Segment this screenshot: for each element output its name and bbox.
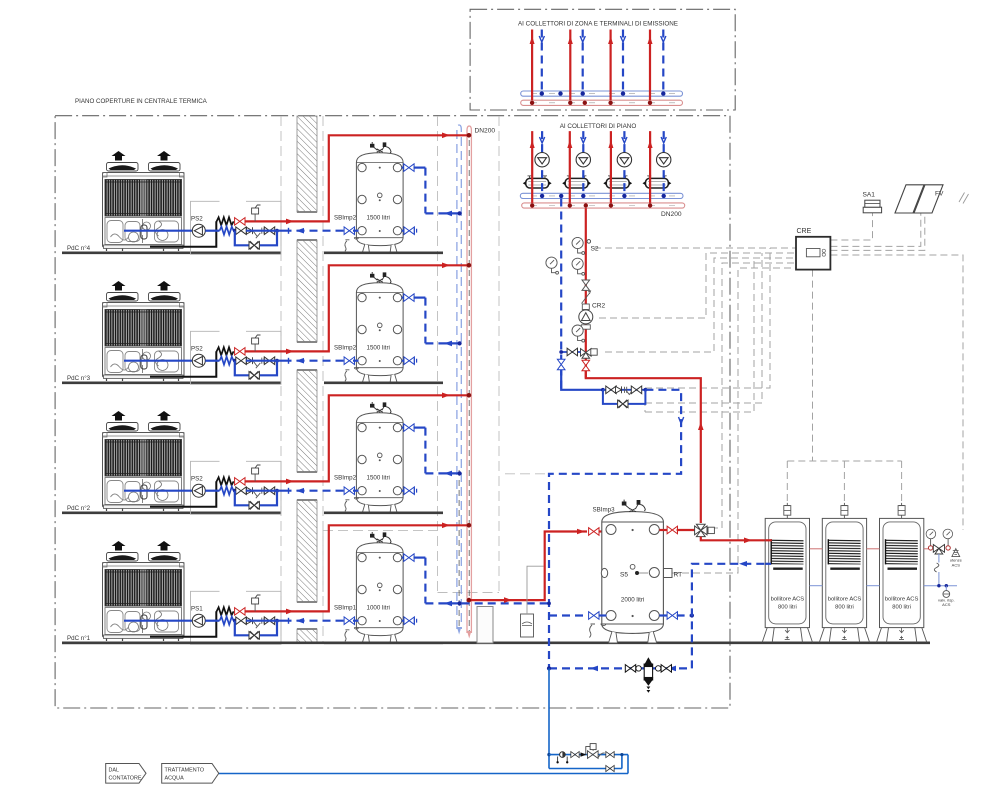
piano group 2 heat exchanger block [562, 176, 591, 188]
zona main return dot [558, 91, 562, 95]
zone collectors boundary box [470, 9, 735, 110]
masonry wall hatched blocks [297, 116, 317, 643]
zona blue collector pill [521, 91, 683, 96]
piano red collector pill [522, 203, 685, 208]
SBImp3 bottom left inlet [549, 612, 607, 620]
zona main supply dot [583, 101, 587, 105]
piano group 2 blue riser with pump [576, 131, 590, 198]
boiler ACS 1 [762, 503, 812, 643]
heat pump PdC n°4 [103, 151, 185, 251]
wire mixing valve actuator to CRE [605, 258, 796, 352]
svg-text:PdC n°3: PdC n°3 [67, 375, 91, 382]
piano group 4 red riser [648, 131, 653, 208]
svg-text:PS1: PS1 [191, 606, 203, 613]
wire ACS mixing valve to CRE [830, 255, 963, 530]
return extension from riser to SBImp3 loop [462, 602, 551, 606]
photovoltaic panels FV [895, 185, 969, 213]
DN200 risers in shaft : red pair [467, 126, 471, 633]
svg-text:ACS: ACS [952, 562, 961, 567]
svg-text:SBImp2: SBImp2 [334, 345, 357, 352]
TRATTAMENTO ACQUA tag [162, 764, 219, 784]
svg-text:PIANO COPERTURE IN CENTRALE TE: PIANO COPERTURE IN CENTRALE TERMICA [75, 98, 208, 105]
svg-text:SBImp1: SBImp1 [334, 605, 357, 612]
svg-text:S2: S2 [591, 246, 599, 253]
svg-text:DN200: DN200 [661, 211, 682, 218]
heat pump PdC n°2 [103, 411, 185, 511]
buffer tank SBImp1 1000 litri (row 1) [345, 532, 403, 643]
svg-text:800 litri: 800 litri [892, 605, 911, 611]
cold return entry into boiler 1 coil [765, 563, 771, 565]
svg-text:1500 litri: 1500 litri [367, 475, 390, 482]
solar sensor SA1 [863, 192, 882, 213]
ACS thermostatic mixing valve [928, 545, 950, 555]
piping kit row 1 with pump PS1 [62, 523, 471, 645]
wall shaft dashed guides [281, 116, 499, 643]
svg-text:1500 litri: 1500 litri [367, 215, 390, 222]
wire three-way valve to CRE [711, 263, 796, 528]
thermometer on return [546, 257, 559, 274]
wire CR2 pump to CRE [599, 253, 796, 318]
dirt separator filter [625, 657, 671, 693]
expansion vessel (open) [477, 607, 493, 644]
buffer tank SBImp2 1500 litri (row 4) [345, 142, 403, 253]
main return blue vertical [559, 194, 563, 390]
piano group 1 red riser [530, 131, 535, 208]
SBImp3 bottom right connection [659, 612, 694, 620]
zona red collector pill [521, 100, 683, 105]
flange under pump [581, 325, 590, 329]
sensor S2 [587, 240, 599, 253]
svg-text:1000 litri: 1000 litri [367, 605, 390, 612]
boiler ACS 3 [877, 503, 927, 643]
utenze ACS outlet [950, 549, 963, 568]
piping kit row 2 with pump PS2 [62, 393, 471, 515]
zona riser pair 2 red [568, 30, 573, 106]
piano group 1 heat exchanger block [523, 176, 552, 188]
wire comb to floor pumps [645, 248, 770, 412]
DHW return riser to boilers [692, 561, 771, 668]
controller CRE [796, 228, 830, 270]
zona riser pair 1 red [530, 30, 535, 106]
svg-text:PdC n°1: PdC n°1 [67, 635, 91, 642]
svg-text:800 litri: 800 litri [835, 605, 854, 611]
wire FV panel 2 to CRE [830, 213, 924, 250]
svg-text:TRATTAMENTO: TRATTAMENTO [165, 767, 205, 773]
return bypass line with valves [549, 370, 684, 668]
DN200 risers in shaft : blue pair [457, 125, 461, 629]
valve on SBImp3 inlet [589, 528, 599, 536]
thermostat RT [664, 569, 683, 579]
svg-text:SA1: SA1 [863, 192, 876, 199]
piano group 3 red riser [608, 131, 613, 208]
valv risp ACS recirculation pump [938, 586, 955, 607]
buffer tank SBImp3 2000 litri [589, 500, 663, 643]
valve from return to mixing valve [559, 348, 580, 356]
wire to RT from bundle [672, 572, 682, 574]
sensor S5 [620, 564, 648, 578]
membrane expansion vessel [521, 566, 544, 637]
thermometer T1 on supply [572, 237, 585, 254]
cold links between boilers [810, 585, 958, 587]
piano group 4 heat exchanger block [643, 176, 672, 188]
buffer tank SBImp2 1500 litri (row 3) [345, 272, 403, 383]
svg-text:PS2: PS2 [191, 216, 203, 223]
zona pill tick marks [531, 94, 675, 103]
zona riser pair 1 blue [539, 30, 544, 96]
svg-text:PS2: PS2 [191, 476, 203, 483]
piano group 2 red riser [567, 131, 572, 208]
svg-text:DN200: DN200 [475, 128, 496, 135]
bottom cold line with dirt separator [547, 666, 692, 672]
zona riser pair 3 red [608, 30, 613, 106]
svg-text:PdC n°4: PdC n°4 [67, 245, 91, 252]
long ground line under row 1 extending right [62, 641, 930, 644]
heat pump PdC n°1 [103, 541, 185, 641]
three-way diverter valve on SBImp3 outlet [695, 524, 715, 536]
piping kit row 4 with pump PS2 [62, 133, 471, 255]
svg-text:SBImp2: SBImp2 [334, 475, 357, 482]
svg-text:bollitore ACS: bollitore ACS [885, 597, 919, 603]
riser bottom arrows [457, 627, 461, 635]
svg-text:PdC n°2: PdC n°2 [67, 505, 91, 512]
ACS mixed drop with flex [934, 554, 948, 587]
heat pump PdC n°3 [103, 281, 185, 381]
piano pill tick marks [531, 196, 675, 206]
wire S2 sensor to CRE [594, 247, 796, 249]
piano group 4 blue riser with pump [657, 131, 671, 198]
thermometer T3 on supply [572, 325, 585, 342]
supply drop to SBImp3 three-way [586, 371, 704, 523]
piano blue collector pill [520, 193, 683, 198]
zona riser pair 2 blue [580, 30, 585, 96]
piano group 3 blue riser with pump [617, 131, 631, 198]
zona riser pair 4 blue [661, 30, 666, 96]
wire RT thermostat to CRE [682, 268, 796, 573]
svg-text:SBImp3: SBImp3 [593, 507, 616, 514]
svg-text:CRE: CRE [797, 228, 812, 235]
wire FV panel 1 to CRE [830, 213, 920, 246]
valve on return below junction [557, 359, 565, 369]
pressure reducer group [549, 744, 628, 774]
SBImp3 outlet valve [659, 526, 694, 534]
svg-text:ACQUA: ACQUA [165, 775, 185, 781]
valve on supply below mixing valve [582, 360, 590, 370]
buffer tank SBImp2 1500 litri (row 2) [345, 402, 403, 513]
svg-text:2000 litri: 2000 litri [621, 597, 644, 604]
hot supply entry into boiler 1 coil [765, 539, 772, 541]
piano group 3 heat exchanger block [603, 176, 632, 188]
feed from water treatment [219, 773, 628, 775]
hot supply to boilers [701, 537, 772, 544]
main supply red vertical [584, 203, 588, 378]
svg-text:ACS: ACS [942, 602, 951, 607]
wire boilers to CRE [787, 270, 901, 505]
control wiring bundle (grey dashed) [594, 213, 963, 573]
svg-text:1500 litri: 1500 litri [367, 345, 390, 352]
ACS manifold gauges [926, 529, 953, 546]
boiler ACS 2 [819, 503, 869, 643]
shutoff valve on supply [582, 280, 590, 290]
svg-text:FV: FV [935, 191, 944, 198]
piping kit row 3 with pump PS2 [62, 263, 471, 385]
svg-text:AI COLLETTORI DI PIANO: AI COLLETTORI DI PIANO [560, 123, 637, 130]
DAL CONTATORE tag [106, 764, 146, 784]
svg-text:AI COLLETTORI DI ZONA E TERMIN: AI COLLETTORI DI ZONA E TERMINALI DI EMI… [518, 21, 678, 28]
zona riser pair 3 blue [620, 30, 625, 96]
svg-text:CONTATORE: CONTATORE [109, 775, 142, 781]
main plant boundary (dash-dot) [55, 116, 730, 708]
svg-text:S5: S5 [620, 572, 628, 579]
piano group 1 blue riser with pump [535, 131, 549, 198]
pump CR2 [579, 310, 593, 324]
cold water feed riser [547, 668, 550, 768]
svg-text:SBImp2: SBImp2 [334, 215, 357, 222]
supply from riser bottom to SBImp3 [467, 529, 587, 603]
svg-text:bollitore ACS: bollitore ACS [828, 597, 862, 603]
svg-text:800 litri: 800 litri [778, 605, 797, 611]
svg-text:bollitore ACS: bollitore ACS [771, 597, 805, 603]
svg-text:CR2: CR2 [592, 303, 606, 310]
svg-text:PS2: PS2 [191, 346, 203, 353]
zona riser pair 4 red [648, 30, 653, 106]
thermometer T2 on supply [572, 258, 585, 275]
wall opening lintels [297, 212, 317, 629]
three-way mixing valve with actuator [581, 349, 598, 359]
wire SA1 to CRE [830, 213, 872, 240]
slab guide near shaft [505, 473, 548, 475]
svg-text:RT: RT [674, 572, 683, 579]
balancing valve CR2 line [582, 291, 591, 310]
svg-text:DAL: DAL [109, 767, 120, 773]
riser centerlines [458, 470, 460, 628]
hot links between boiler coils [810, 548, 929, 550]
